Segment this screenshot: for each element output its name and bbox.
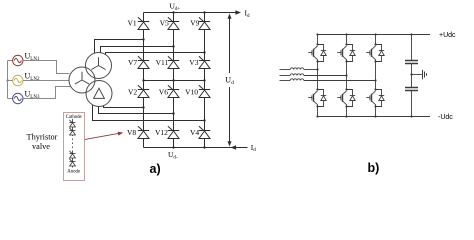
thyristor V1	[138, 17, 149, 29]
series thyristor 1	[69, 120, 75, 127]
callout arrow to V8	[85, 133, 121, 139]
wire: Ud- bottom bus with Id arrow	[144, 147, 248, 149]
wire: cap branch middle	[411, 64, 413, 88]
junction: cap branch / top bus	[410, 33, 412, 35]
junction: column3 / phase c	[203, 51, 205, 53]
junction: column2 / phase b	[172, 45, 174, 47]
wire: cap branch lower	[411, 91, 413, 117]
wire: valve string	[72, 119, 74, 168]
svg-text:V5: V5	[160, 18, 169, 27]
wire: phase line 1 with inductor	[280, 69, 291, 71]
wire: Delta secondary phase b to column 2	[99, 107, 174, 114]
thyristor V11	[168, 56, 179, 68]
svg-text:V10: V10	[185, 87, 198, 96]
wire: middle bus between bridges	[144, 80, 205, 82]
IGBT module T2 lower leg1 with antiparallel diode	[308, 88, 326, 107]
capacitor C2	[405, 88, 418, 91]
IGBT module T4 lower leg2 with antiparallel diode	[337, 88, 355, 107]
svg-text:V11: V11	[156, 58, 169, 67]
junction: column2 / delta phase b	[172, 112, 174, 114]
wire: phase line 3 with inductor	[280, 80, 291, 82]
svg-text:V7: V7	[128, 58, 137, 67]
junction: leg 3 / top bus	[374, 33, 376, 35]
svg-text:Thyristor: Thyristor	[27, 133, 58, 142]
inductor L3	[290, 79, 304, 81]
wire: column 2 vertical segments	[173, 13, 175, 148]
wire: Ud measurement arrow line	[229, 16, 231, 143]
junction: leg2 / phase 2	[345, 74, 347, 76]
thyristor V5	[168, 17, 179, 29]
capacitor C1	[405, 61, 418, 64]
transformer secondary winding Delta	[86, 81, 112, 107]
wire: midpoint to ground	[412, 74, 422, 76]
wire: phase 2 to leg 2	[304, 75, 347, 77]
legend box: thyristor valve	[64, 113, 85, 181]
wire: +Udc bus	[318, 34, 431, 36]
svg-text:V9: V9	[190, 18, 199, 27]
wire: Delta secondary phase a to column 1	[104, 106, 144, 108]
junction: leg 2 / bottom bus	[345, 115, 347, 117]
junction: leg 3 / bottom bus	[374, 115, 376, 117]
IGBT module T5 upper leg3 with antiparallel diode	[366, 43, 384, 62]
junction: mid bus / column3	[203, 79, 205, 81]
IGBT module T6 lower leg3 with antiparallel diode	[366, 88, 384, 107]
svg-text:V3: V3	[189, 58, 198, 67]
junction: top bus / column2	[172, 11, 174, 13]
junction: leg3 / phase 3	[374, 79, 376, 81]
inductor L1	[290, 68, 304, 70]
junction: mid bus / column1	[142, 79, 144, 81]
junction: mid bus / column2	[172, 79, 174, 81]
IGBT module T3 upper leg2 with antiparallel diode	[337, 43, 355, 62]
IGBT module T1 upper leg1 with antiparallel diode	[308, 43, 326, 62]
AC source U_LN2	[13, 75, 23, 85]
AC source U_LN3	[13, 93, 23, 103]
wire: leg 2 verticals	[346, 35, 348, 117]
svg-text:V2: V2	[128, 87, 137, 96]
wire: phase line 2 with inductor	[280, 75, 291, 77]
inductor L2	[290, 74, 304, 76]
svg-text:Cathode: Cathode	[66, 115, 82, 120]
thyristor V10	[199, 85, 210, 97]
svg-text:V12: V12	[155, 128, 168, 137]
wire: Y secondary phase c to column 3	[106, 53, 205, 55]
junction: top bus / column3	[203, 11, 205, 13]
wire: source left bus	[8, 61, 13, 99]
svg-text:V6: V6	[159, 87, 168, 96]
svg-text:V8: V8	[127, 128, 136, 137]
thyristor V4	[199, 126, 210, 138]
svg-text:b): b)	[368, 161, 380, 175]
svg-text:V1: V1	[128, 18, 137, 27]
series thyristor 4	[69, 159, 75, 166]
wire: Delta secondary phase c to column 3	[93, 105, 205, 121]
wire: column 1 vertical segments	[143, 13, 145, 148]
junction: column1 / phase a	[142, 38, 144, 40]
junction: cap branch / bottom bus	[410, 115, 412, 117]
thyristor V6	[168, 85, 179, 97]
wire: capacitor branch upper	[411, 35, 413, 61]
wire: phase 1 to leg 1	[304, 69, 318, 71]
svg-text:valve: valve	[32, 142, 50, 151]
wire: phase 3 source to transformer	[23, 87, 71, 99]
thyristor V2	[138, 85, 149, 97]
thyristor V8	[138, 126, 149, 138]
wire: column 3 vertical segments	[204, 13, 206, 148]
wire: Y secondary phase a to column 1	[95, 40, 144, 54]
wire: leg 1 verticals	[317, 35, 319, 117]
thyristor V7	[138, 56, 149, 68]
junction: column3 / delta phase c	[203, 119, 205, 121]
svg-text:a): a)	[150, 162, 161, 176]
junction: left bus / source 2	[6, 79, 8, 81]
wire: Y secondary phase b to column 2	[101, 47, 174, 53]
thyristor V3	[199, 56, 210, 68]
junction: bottom bus / column3	[203, 146, 205, 148]
thyristor V9	[199, 17, 210, 29]
wire: Ud+ top bus with Id arrow	[144, 12, 238, 14]
wire: phase 2 source to transformer	[23, 80, 69, 82]
junction: leg 1 / top bus	[316, 33, 318, 35]
svg-text:V4: V4	[190, 128, 199, 137]
junction: bottom bus / column2	[172, 146, 174, 148]
AC source U_LN1	[13, 55, 23, 65]
wire: leg 3 verticals	[375, 35, 377, 117]
transformer primary winding (Y)	[69, 67, 95, 93]
junction: leg 2 / top bus	[345, 33, 347, 35]
wire: -Udc bus	[318, 116, 431, 118]
series thyristor 3	[69, 151, 75, 158]
junction: leg1 / phase 1	[316, 68, 318, 70]
junction: cap midpoint	[410, 73, 412, 75]
junction: column1 / delta phase a	[142, 106, 144, 108]
wire: phase 1 source to transformer	[23, 61, 69, 74]
svg-text:+Udc: +Udc	[439, 32, 456, 39]
ground	[423, 70, 427, 79]
junction: leg 1 / bottom bus	[316, 115, 318, 117]
transformer secondary winding Y	[86, 53, 112, 79]
wire: phase 3 to leg 3	[304, 80, 376, 82]
continuation dots	[72, 139, 74, 149]
svg-text:Anode: Anode	[67, 170, 80, 175]
thyristor V12	[168, 126, 179, 138]
svg-text:-Udc: -Udc	[438, 114, 453, 121]
series thyristor 2	[69, 128, 75, 135]
